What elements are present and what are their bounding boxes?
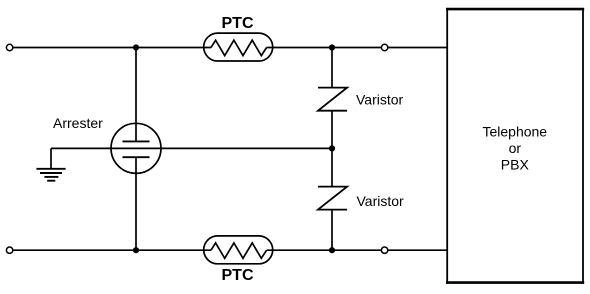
wire top line right segment <box>267 47 447 49</box>
terminal top right <box>381 44 387 50</box>
arrester gas discharge tube envelope <box>111 123 161 173</box>
varistor top Z symbol <box>318 88 347 111</box>
PTC thermistor bottom zigzag <box>211 243 267 258</box>
label Telephone or PBX <box>482 123 547 172</box>
junction middle <box>329 145 335 151</box>
junction top left <box>133 44 139 50</box>
arrester upper electrode plate <box>123 140 150 142</box>
junction bottom right <box>329 247 335 253</box>
wire bottom varistor lower lead <box>331 210 333 251</box>
wire arrester top stub <box>135 48 137 142</box>
svg-text:Varistor: Varistor <box>356 92 404 108</box>
PTC thermistor top body <box>204 33 273 61</box>
svg-text:PBX: PBX <box>501 157 530 173</box>
terminal bottom left <box>6 247 12 253</box>
wire bottom varistor upper lead <box>331 148 333 186</box>
wire bottom line right segment <box>267 249 447 251</box>
telephone PBX box <box>446 8 584 284</box>
svg-text:Varistor: Varistor <box>357 193 405 209</box>
PTC thermistor bottom body <box>204 236 273 264</box>
terminal top left <box>6 44 12 50</box>
wire top varistor upper lead <box>331 48 333 88</box>
wire ground riser <box>50 148 52 168</box>
ground <box>36 169 65 181</box>
varistor bottom Z symbol <box>318 187 347 210</box>
wire top line left segment <box>13 47 212 49</box>
svg-text:Arrester: Arrester <box>53 115 103 131</box>
wire middle line ground to varistor junction <box>51 147 332 149</box>
wire arrester bottom stub <box>135 157 137 250</box>
PTC thermistor top zigzag <box>211 40 267 55</box>
junction top right <box>329 44 335 50</box>
junction bottom left <box>133 247 139 253</box>
wire bottom line left segment <box>13 249 212 251</box>
svg-text:PTC: PTC <box>222 15 254 32</box>
svg-text:PTC: PTC <box>222 267 254 284</box>
wire top varistor lower lead <box>331 111 333 149</box>
svg-text:Telephone: Telephone <box>482 123 547 139</box>
terminal bottom right <box>381 247 387 253</box>
svg-text:or: or <box>509 140 522 156</box>
arrester lower electrode plate <box>123 156 150 158</box>
